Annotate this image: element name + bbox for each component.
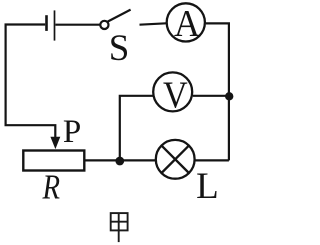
svg-text:S: S bbox=[109, 28, 130, 69]
svg-text:R: R bbox=[42, 167, 61, 206]
svg-text:P: P bbox=[63, 114, 81, 150]
svg-text:A: A bbox=[174, 3, 200, 45]
svg-text:L: L bbox=[196, 166, 219, 207]
svg-text:V: V bbox=[163, 74, 188, 116]
